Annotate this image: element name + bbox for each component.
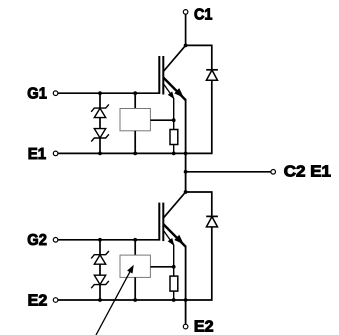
terminal E1 (53, 151, 58, 156)
node G1/zener (98, 91, 102, 95)
IGBT Q1 emitter lead with arrow (163, 78, 185, 101)
wire C2E1 (186, 171, 271, 173)
terminal E2 left (53, 298, 58, 303)
label C2 E1 (284, 164, 331, 181)
label C1 (194, 6, 213, 23)
diode D1 (206, 70, 218, 81)
wire node to diode D2 branch (186, 192, 212, 216)
IGBT Q1 collector lead (163, 45, 185, 71)
wire main emitter down (185, 99, 187, 192)
resistor R1 (170, 130, 178, 145)
wire main emitter2 down (185, 246, 187, 325)
IGBT Q2 sense emitter arrow (163, 230, 173, 245)
node C2E1 (184, 170, 188, 174)
svg-text:E2: E2 (28, 292, 48, 309)
wire G1 (58, 92, 159, 94)
node collector bottom (184, 190, 188, 194)
wire E1 rail (58, 152, 186, 154)
label E1 (28, 146, 47, 163)
node E2/box (133, 298, 137, 302)
svg-text:C2 E1: C2 E1 (284, 164, 331, 181)
label E2 left (28, 292, 48, 309)
label G2 (27, 232, 47, 249)
zener Z2 (91, 129, 109, 142)
node emitter2/E2 rail (184, 298, 188, 302)
wire box2 output (150, 266, 173, 268)
zener Z1 (91, 104, 109, 117)
node sense/box2 (172, 265, 176, 269)
node G2/zener (98, 238, 102, 242)
label G1 (27, 86, 47, 103)
zener Z4 (91, 275, 109, 288)
svg-text:G2: G2 (27, 232, 47, 249)
IGBT Q2 gate bar (158, 203, 160, 241)
node E2/zener (98, 298, 102, 302)
wire sense down (173, 98, 175, 130)
terminal C2E1 (271, 170, 276, 175)
wire node to diode D1 branch (186, 45, 212, 69)
wire box1 bottom lead (134, 131, 136, 154)
svg-text:E2: E2 (194, 319, 214, 335)
node E1/box (133, 152, 137, 156)
node emitter/E1 rail (184, 152, 188, 156)
box U2 (protection circuit) (120, 255, 150, 277)
node sense/E1 rail (172, 152, 176, 156)
IGBT Q2 collector lead (163, 192, 185, 218)
wire zener branch 1 (99, 93, 101, 153)
box U1 (protection circuit) (120, 109, 150, 131)
IGBT Q2 emitter lead with arrow (163, 224, 185, 247)
node G1/box (133, 91, 137, 95)
terminal C1 (183, 10, 188, 15)
terminal E2 bottom (183, 324, 188, 329)
terminal G1 (53, 91, 58, 96)
wire R2 to rail (173, 291, 175, 300)
annotation arrow to box U2 (96, 266, 133, 335)
svg-text:C1: C1 (194, 6, 213, 23)
label E2 bottom (194, 319, 214, 335)
diode D2 (206, 216, 218, 227)
resistor R2 (170, 276, 178, 291)
svg-text:G1: G1 (27, 86, 47, 103)
svg-text:E1: E1 (28, 146, 47, 163)
wire zener branch 2 (99, 240, 101, 300)
node E1/zener (98, 152, 102, 156)
wire box1 top lead (134, 93, 136, 108)
IGBT Q2 body bar (162, 203, 164, 242)
IGBT Q1 gate bar (158, 56, 160, 94)
wire box1 output (150, 119, 173, 121)
wire box2 bottom lead (134, 277, 136, 300)
zener Z3 (91, 251, 109, 264)
node sense2/E2 rail (172, 298, 176, 302)
wire box2 top lead (134, 240, 136, 255)
wire C1 vertical (185, 14, 187, 45)
IGBT Q1 body bar (162, 56, 164, 95)
wire D1 anode down to E1 rail (186, 80, 212, 153)
IGBT Q1 sense emitter arrow (163, 84, 173, 99)
node G2/box (133, 238, 137, 242)
wire sense2 down (173, 245, 175, 277)
node sense/box1 (172, 118, 176, 122)
node collector top (184, 44, 188, 48)
wire R1 to rail (173, 145, 175, 154)
wire D2 anode down to E2 rail (186, 227, 212, 300)
wire G2 (58, 239, 159, 241)
wire E2 rail (58, 299, 186, 301)
terminal G2 (53, 238, 58, 243)
